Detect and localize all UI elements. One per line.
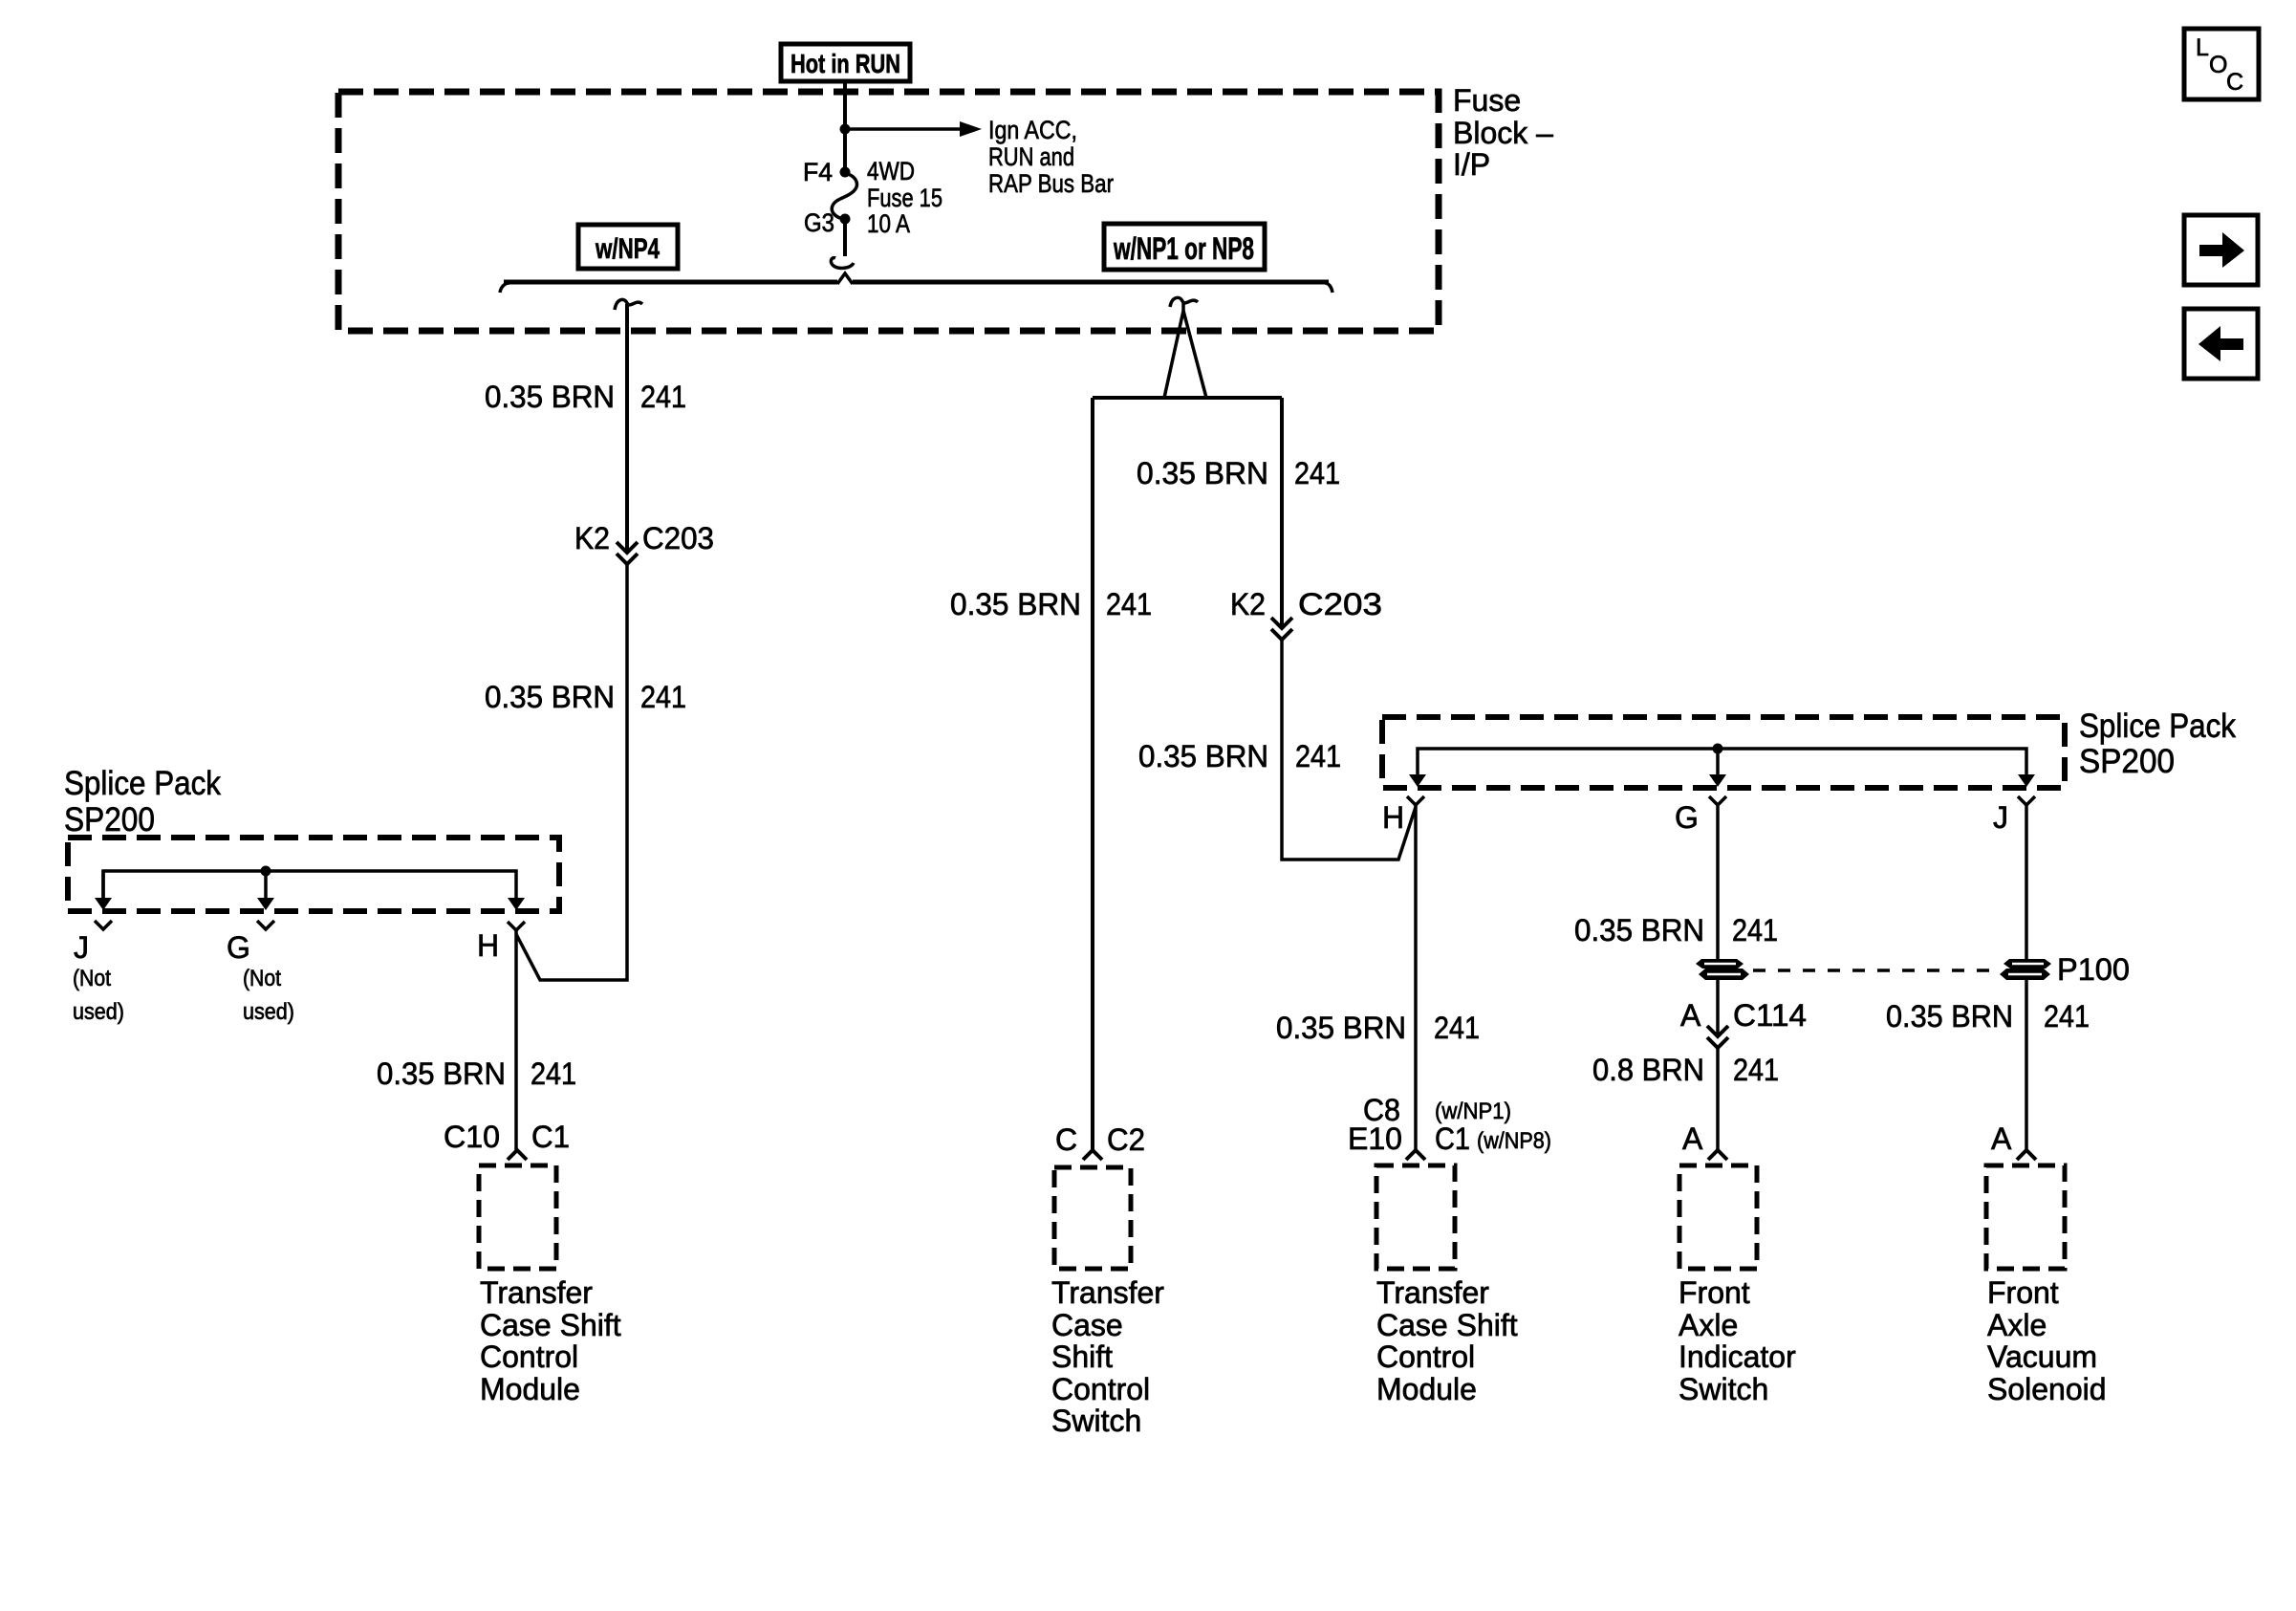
- svg-text:10 A: 10 A: [867, 209, 910, 238]
- wire label 0.35 BRN 241 (feed into right splice): [1138, 739, 1341, 773]
- wire from grommet to connector C114: [1716, 980, 1720, 1034]
- splice terminal arrow J (left SP200): [95, 871, 112, 910]
- nav box arrow left: [2184, 309, 2258, 379]
- svg-text:0.35 BRN: 0.35 BRN: [485, 680, 615, 714]
- pin cavity chevron at switch: [1083, 1150, 1102, 1160]
- svg-text:C2: C2: [1107, 1122, 1145, 1157]
- module dashed box Front Axle Vacuum Solenoid: [1986, 1165, 2065, 1269]
- svg-text:Case: Case: [1051, 1308, 1123, 1342]
- pin cavity chevron at module 1: [508, 1150, 527, 1160]
- pin label J (Not used): [73, 930, 124, 1025]
- svg-text:SP200: SP200: [2079, 743, 2175, 780]
- pin label G (Not used): [227, 930, 294, 1025]
- svg-text:241: 241: [640, 380, 686, 414]
- svg-text:Case Shift: Case Shift: [1376, 1308, 1518, 1342]
- connector C203 inline symbol (left branch): [617, 542, 638, 564]
- wire left drop from bus (w/NP4 circuit) with tap curl: [615, 299, 642, 551]
- svg-text:Front: Front: [1679, 1275, 1750, 1310]
- pin G cavity chevron (not used): [257, 921, 274, 929]
- svg-text:C10: C10: [444, 1120, 500, 1154]
- svg-text:Vacuum: Vacuum: [1987, 1339, 2097, 1374]
- svg-text:Module: Module: [1376, 1372, 1477, 1406]
- svg-text:0.35 BRN: 0.35 BRN: [1276, 1011, 1406, 1045]
- svg-text:C203: C203: [642, 521, 714, 555]
- svg-text:w/NP1 or NP8: w/NP1 or NP8: [1113, 231, 1254, 266]
- option header box "w/NP1 or NP8": [1104, 224, 1265, 270]
- svg-text:G3: G3: [804, 208, 834, 237]
- svg-text:H: H: [1382, 800, 1404, 835]
- dashed pairing line to P100: [1753, 969, 2002, 972]
- component label Transfer Case Shift Control Module (right): [1376, 1275, 1518, 1406]
- svg-text:(w/NP1): (w/NP1): [1435, 1099, 1511, 1124]
- svg-text:241: 241: [1732, 913, 1778, 947]
- pin J cavity chevron (not used): [95, 921, 112, 929]
- splice pack SP200 dashed box (left): [68, 838, 559, 911]
- svg-text:Transfer: Transfer: [1376, 1275, 1489, 1310]
- splice pack SP200 label (left): [64, 765, 221, 838]
- svg-text:SP200: SP200: [64, 801, 155, 838]
- fuse value label "4WD Fuse 15 10 A": [867, 157, 942, 238]
- svg-text:I/P: I/P: [1453, 147, 1490, 182]
- svg-text:Axle: Axle: [1987, 1308, 2047, 1342]
- svg-text:w/NP4: w/NP4: [595, 233, 660, 265]
- pin label C / connector C2 (switch): [1055, 1122, 1145, 1157]
- module dashed box Front Axle Indicator Switch: [1679, 1165, 1757, 1269]
- svg-text:E10: E10: [1348, 1121, 1402, 1156]
- svg-text:A: A: [1991, 1121, 2012, 1156]
- svg-text:(Not: (Not: [73, 966, 111, 991]
- node G3 terminal dot: [840, 214, 851, 225]
- fuse block name label "Fuse Block - I/P": [1453, 83, 1553, 182]
- pin H cavity chevron: [508, 922, 525, 930]
- fuse block I/P dashed box: [338, 92, 1439, 331]
- net label "Ign ACC, RUN and RAP Bus Bar": [988, 116, 1114, 198]
- wire from splice H down to module connector: [514, 930, 518, 1150]
- connector C203 pin K2 label (right branch): [1230, 587, 1382, 621]
- svg-text:241: 241: [1434, 1011, 1480, 1045]
- node F4 terminal dot: [840, 167, 851, 178]
- splice internal bus wire (right SP200): [1418, 749, 2026, 776]
- svg-text:241: 241: [1733, 1053, 1779, 1087]
- wire label 0.35 BRN 241 (H branch): [1276, 1011, 1480, 1045]
- svg-text:241: 241: [1106, 587, 1152, 621]
- svg-text:Control: Control: [1051, 1372, 1150, 1406]
- wire to transfer case switch (vertical): [1091, 398, 1094, 1150]
- svg-text:Fuse: Fuse: [1453, 83, 1521, 118]
- svg-text:Shift: Shift: [1051, 1339, 1113, 1374]
- splice terminal arrow G (right SP200): [1709, 749, 1726, 787]
- svg-text:Hot in RUN: Hot in RUN: [791, 49, 900, 78]
- svg-text:241: 241: [1295, 739, 1341, 773]
- svg-text:Solenoid: Solenoid: [1987, 1372, 2107, 1406]
- wire from splice J down through P100 to solenoid: [2025, 805, 2028, 1149]
- svg-text:Block –: Block –: [1453, 116, 1553, 150]
- splice terminal arrow J (right SP200): [2018, 774, 2035, 787]
- svg-text:J: J: [1993, 800, 2008, 835]
- svg-text:Switch: Switch: [1051, 1404, 1141, 1438]
- svg-text:Transfer: Transfer: [480, 1275, 593, 1310]
- svg-text:RAP Bus Bar: RAP Bus Bar: [988, 169, 1114, 198]
- splice pack SP200 label (right): [2079, 708, 2236, 780]
- svg-text:RUN and: RUN and: [988, 142, 1074, 171]
- svg-text:J: J: [74, 930, 89, 965]
- svg-text:G: G: [1675, 800, 1699, 835]
- module dashed box Transfer Case Shift Control Module (left): [479, 1165, 556, 1269]
- svg-text:0.35 BRN: 0.35 BRN: [1574, 913, 1704, 947]
- wire end clip curl above bus: [831, 258, 854, 269]
- svg-text:H: H: [477, 928, 499, 963]
- option header box "w/NP4": [578, 225, 678, 269]
- connector C114 pin A label: [1680, 998, 1807, 1033]
- wire label 0.35 BRN 241 (G branch): [1574, 913, 1778, 947]
- component label Transfer Case Shift Control Switch: [1051, 1275, 1164, 1438]
- pin cavity chevron at module 3: [1406, 1150, 1425, 1160]
- svg-text:used): used): [73, 999, 124, 1025]
- svg-text:Front: Front: [1987, 1275, 2059, 1310]
- svg-text:C1: C1: [1435, 1121, 1470, 1156]
- wire from C114 to front axle indicator switch: [1716, 1048, 1720, 1149]
- svg-text:Axle: Axle: [1679, 1308, 1738, 1342]
- svg-text:0.35 BRN: 0.35 BRN: [1138, 739, 1268, 773]
- wire label 0.35 BRN 241 (lower left): [485, 680, 686, 714]
- svg-text:241: 241: [2044, 999, 2090, 1034]
- wire from Hot in RUN down to fuse F4: [843, 81, 847, 172]
- svg-text:Splice Pack: Splice Pack: [64, 765, 221, 802]
- wire from C203 to right splice feed: [1282, 640, 1416, 860]
- svg-text:Module: Module: [480, 1372, 580, 1406]
- svg-text:L: L: [2196, 34, 2209, 61]
- wire label 0.35 BRN 241 (switch branch): [950, 587, 1152, 621]
- wire label 0.8 BRN 241: [1592, 1053, 1779, 1087]
- svg-text:C1: C1: [531, 1120, 570, 1154]
- component label Transfer Case Shift Control Module (left): [480, 1275, 621, 1406]
- wire x1341 from Y to C203: [1280, 398, 1284, 626]
- svg-text:Case Shift: Case Shift: [480, 1308, 621, 1342]
- svg-text:G: G: [227, 930, 250, 965]
- svg-text:241: 241: [640, 680, 686, 714]
- bus bar line inside fuse block: [500, 273, 1332, 293]
- svg-text:K2: K2: [1230, 587, 1266, 621]
- connector C203 pin K2 label: [574, 521, 714, 555]
- splice terminal arrow H (left SP200): [508, 898, 525, 910]
- wire from G3 down to bus: [843, 219, 847, 256]
- power label box "Hot in RUN": [781, 44, 910, 81]
- wire label 0.35 BRN 241 (J branch): [1886, 999, 2090, 1034]
- node splice junction dot (right SP200): [1713, 744, 1723, 754]
- svg-text:241: 241: [1294, 456, 1340, 490]
- svg-text:A: A: [1680, 998, 1701, 1033]
- splice terminal arrow H (right SP200): [1409, 774, 1426, 787]
- svg-text:C: C: [2226, 69, 2243, 96]
- wire right drop from bus (w/NP1 or NP8 circuit) with tap curl and Y split: [1093, 297, 1282, 398]
- svg-text:0.35 BRN: 0.35 BRN: [1137, 456, 1268, 490]
- grommet symbol P100 on J branch: [2000, 959, 2051, 980]
- pin G cavity chevron (right SP200): [1709, 796, 1726, 805]
- wire label 0.35 BRN 241 (right drop upper): [1137, 456, 1340, 490]
- pin cavity chevron at module 4: [1708, 1150, 1727, 1160]
- svg-text:A: A: [1682, 1121, 1703, 1156]
- svg-text:Fuse 15: Fuse 15: [867, 184, 942, 212]
- wire from splice G down to grommet: [1716, 805, 1720, 959]
- svg-text:Ign ACC,: Ign ACC,: [988, 116, 1077, 144]
- wire label 0.35 BRN 241 (upper left): [485, 380, 686, 414]
- nav box arrow right: [2184, 215, 2258, 285]
- svg-text:4WD: 4WD: [867, 157, 915, 185]
- svg-text:Control: Control: [480, 1339, 578, 1374]
- node splice junction dot (left SP200): [261, 866, 271, 877]
- pin label E10 / connector C1 (w/NP8): [1348, 1121, 1551, 1156]
- splice terminal arrow G (left SP200): [257, 871, 274, 910]
- component label Front Axle Vacuum Solenoid: [1987, 1275, 2107, 1406]
- node junction dot at bus-bar tap: [840, 124, 851, 135]
- svg-text:0.35 BRN: 0.35 BRN: [377, 1056, 506, 1091]
- connector C203 inline symbol (right branch): [1271, 618, 1292, 640]
- svg-text:F4: F4: [803, 158, 833, 186]
- svg-text:C114: C114: [1733, 998, 1807, 1033]
- wire from splice H down to module connector (right): [1414, 805, 1418, 1149]
- grommet symbol on G branch: [1696, 959, 1749, 980]
- module dashed box Transfer Case Shift Control Switch: [1054, 1167, 1131, 1269]
- wire from C203 down to splice feed corner: [516, 564, 627, 980]
- pin H cavity chevron (right SP200): [1407, 796, 1424, 805]
- module dashed box Transfer Case Shift Control Module (right): [1376, 1165, 1455, 1269]
- component label Front Axle Indicator Switch: [1679, 1275, 1796, 1406]
- fuse 4WD Fuse 15 10A squiggle element: [832, 173, 856, 219]
- pin label C10 / connector C1: [444, 1120, 570, 1154]
- svg-text:0.35 BRN: 0.35 BRN: [485, 380, 615, 414]
- svg-text:Transfer: Transfer: [1051, 1275, 1164, 1310]
- svg-text:0.35 BRN: 0.35 BRN: [950, 587, 1081, 621]
- svg-text:0.35 BRN: 0.35 BRN: [1886, 999, 2013, 1034]
- pin J cavity chevron (right SP200): [2018, 796, 2035, 805]
- pin cavity chevron at module 5: [2017, 1150, 2036, 1160]
- svg-text:C: C: [1055, 1122, 1077, 1157]
- pin label C8 (w/NP1): [1363, 1093, 1511, 1127]
- svg-text:(Not: (Not: [243, 966, 281, 991]
- svg-text:Control: Control: [1376, 1339, 1475, 1374]
- wire label 0.35 BRN 241 (to left module): [377, 1056, 576, 1091]
- svg-text:Splice Pack: Splice Pack: [2079, 708, 2236, 745]
- svg-text:used): used): [243, 999, 294, 1025]
- splice pack SP200 dashed box (right): [1382, 717, 2065, 788]
- connector C114 inline symbol: [1707, 1026, 1728, 1048]
- svg-text:Switch: Switch: [1679, 1372, 1768, 1406]
- svg-text:(w/NP8): (w/NP8): [1477, 1128, 1551, 1154]
- svg-text:K2: K2: [574, 521, 610, 555]
- LOC reference box: [2184, 29, 2259, 99]
- svg-text:O: O: [2209, 52, 2227, 78]
- svg-text:C203: C203: [1298, 587, 1382, 621]
- svg-text:241: 241: [531, 1056, 576, 1091]
- splice internal bus wire (left SP200): [103, 871, 516, 899]
- svg-text:Indicator: Indicator: [1679, 1339, 1796, 1374]
- wire arrow to Ign ACC RUN RAP bus bar: [845, 121, 982, 137]
- svg-text:P100: P100: [2057, 952, 2130, 987]
- svg-text:0.8 BRN: 0.8 BRN: [1592, 1053, 1704, 1087]
